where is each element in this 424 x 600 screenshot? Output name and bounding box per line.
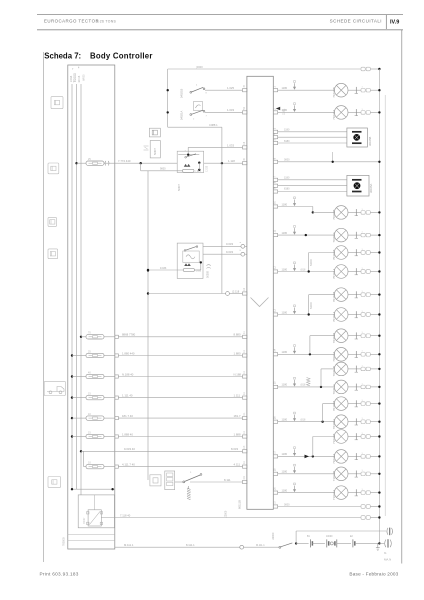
wire F3 to body controller [118,376,242,378]
svg-text:(0300: (0300 [196,65,203,69]
relay K2 output wire 1 [203,245,241,247]
wire F4 bus to fuse [72,397,86,399]
svg-text:1.880: 1.880 [234,351,241,355]
lamp 70300A ground tick [348,234,361,236]
svg-text:W005: W005 [83,74,86,81]
svg-text:0.033: 0.033 [226,242,233,246]
branch rise lamp row 252 [308,253,310,272]
lamp 70300A wire to ground bus [370,234,379,236]
svg-text:1180: 1180 [282,86,288,90]
wire F1 fuse to box edge [104,336,115,338]
svg-text:70300A: 70300A [332,232,336,242]
long vertical link wire [147,171,149,480]
svg-text:70000: 70000 [73,73,77,83]
junction drop from row 163 [140,162,142,164]
body controller right pin 17 [273,455,277,458]
svg-text:1.118: 1.118 [228,159,235,163]
lamp 71030B ground tick [348,89,361,91]
lamp 71030A connector pair [361,111,365,115]
svg-text:1.033: 1.033 [227,143,234,147]
relay 50306 feed branch wire [187,147,189,154]
junction after master switch [295,542,297,544]
battery element 1 [310,539,312,547]
svg-text:71033A: 71033A [332,490,336,500]
branch rise to lamp row 368 [320,369,322,387]
lamp 71033B connector pair [361,472,365,476]
unit 70000 bottom partition line 1 [68,534,115,536]
svg-text:(818: (818 [301,419,306,422]
lamp 71032B ground tick [348,436,361,438]
wire F3 fuse to box edge [104,376,115,378]
pin on unit 70000 edge for F6 [115,435,119,438]
body controller left pin S2 [243,111,247,114]
svg-text:1180: 1180 [282,231,288,235]
junction long vertical at row 270 [147,269,149,271]
lamp 71033B ground tick [348,473,361,475]
lamp 70300B wire to ground bus [370,211,379,213]
relay 50306 internal fuse pill [183,169,195,172]
wire F2 to body controller [118,355,242,357]
body controller left pin F5 [243,417,247,420]
lamp 70300B ground junction [378,211,380,213]
bottom row wire from unit 70000 [115,546,240,548]
svg-text:(818: (818 [301,384,306,387]
body controller right pin 8 [273,184,277,187]
lamp 71030B [334,83,348,97]
body controller left pin F7 [243,465,247,468]
lamp 70305B wire to ground bus [370,403,379,405]
svg-text:8180: 8180 [284,140,290,143]
lamp 70305B ground junction [378,402,380,404]
wire row 163 fuse to connector [104,162,115,164]
ground riser wire [295,531,297,543]
wire row 163 to relay contact [115,162,177,164]
icon box MOTO side marks [144,145,149,147]
svg-text:70305B: 70305B [332,401,336,411]
body controller left pin F3 [243,375,247,378]
svg-text:70302B: 70302B [332,292,336,302]
secondary right bus line [384,95,386,516]
svg-text:1180: 1180 [282,310,288,314]
icon box MOTO with label [150,141,160,158]
margin pictogram icon2 [48,163,59,174]
lamp 70305B [334,397,348,411]
svg-text:U2000: U2000 [272,532,275,540]
body controller left pin row 293 [243,292,247,295]
svg-text:7.118 40: 7.118 40 [120,513,131,517]
row 293 wire to body controller [148,293,226,295]
relay K2 branch riser [200,262,202,270]
row 506 from body controller bottom [273,505,277,508]
icon nested box bottom [150,475,161,486]
lamp 71030B ground junction [378,89,380,91]
lamp 70303B wire to ground bus [370,335,379,337]
battery master switch 52000 [279,546,281,548]
lamp 70301B ground junction [378,251,380,253]
svg-text:1.888 40: 1.888 40 [122,432,133,436]
svg-text:70303B: 70303B [332,333,336,343]
lamp 71033B wire to ground bus [370,473,379,475]
svg-text:70304A: 70304A [332,384,336,394]
row 8.033 junction on bus 3 [80,450,82,452]
lamp 70304B connector pair [361,367,365,371]
svg-text:1.111 40: 1.111 40 [122,393,133,397]
svg-text:9.033 40: 9.033 40 [124,447,135,451]
lamp 71033A ground tick [348,492,361,494]
branch rise to lamp row 403 [322,404,324,422]
lamp 70303A ground junction [378,353,380,355]
svg-text:50307: 50307 [154,147,157,155]
svg-text:(.025: (.025 [196,171,202,173]
relay K2 coil bottom junction [200,261,202,263]
wire row 163 bus to fuse [77,162,87,164]
wire F4 to body controller [118,397,242,399]
svg-text:(.033: (.033 [196,270,202,272]
lamp 70304A connector pair [361,385,365,389]
lamp 71032B ground junction [378,435,380,437]
bottom row wire to switch [244,546,279,548]
svg-text:Base - Febbraio 2003: Base - Febbraio 2003 [349,571,398,576]
lamp 70305A connector pair [361,420,365,424]
svg-text:70302A: 70302A [332,312,336,322]
lamp 71030B wire to ground bus [370,89,379,91]
svg-text:70000B: 70000B [63,537,66,546]
svg-text:1180: 1180 [282,418,288,422]
row 506 connector pair [361,505,365,509]
lamp 70300B ground tick [348,211,361,213]
svg-text:30105B: 30105B [368,137,372,146]
lamp 70304B wire to ground bus [370,368,379,370]
wire F5 to body controller [118,417,242,419]
wire row 8.033 [81,450,243,452]
pin on unit 70000 edge for F3 [115,375,119,378]
margin pictogram icon1 [51,97,63,109]
lamp 70301A wire to ground bus [370,271,379,273]
right margin line [401,30,403,564]
wire block to switch [175,481,183,483]
relay 50306 junction lower [198,169,200,171]
fuse F2 [86,353,104,357]
right bus ground line [378,69,380,543]
header separator bar [385,15,387,29]
lamp 71033B [334,467,348,481]
switch S1 junction [167,89,169,91]
svg-text:70305A: 70305A [332,419,336,429]
svg-text:50307: 50307 [178,183,181,191]
bus bar 1 [71,84,73,489]
svg-text:1.880 440: 1.880 440 [122,351,135,355]
lamp 70301A ground tick [348,271,361,273]
lamp 71032A connector pair [361,455,365,459]
svg-text:54021A: 54021A [179,111,183,120]
svg-text:SCHEDE CIRCUITALI: SCHEDE CIRCUITALI [330,19,382,24]
header top rule [37,14,403,16]
lamp 70302A ground tick [348,314,361,316]
svg-text:4.111: 4.111 [234,462,241,466]
pin on unit 70000 edge for F7 [115,465,119,468]
lamp 70303A ground tick [348,353,361,355]
svg-text:0000: 0000 [284,159,290,162]
svg-text:1180: 1180 [282,202,288,206]
branch rise to lamp row 436 [312,437,314,457]
svg-text:(818: (818 [301,268,306,271]
body controller right pin 12 [273,270,277,273]
relay 50306 internal wire [178,154,199,156]
relay K2 output wire 2 [203,253,241,255]
connector block bottom [165,471,175,490]
body controller left pin F6 [243,435,247,438]
lamp 70303A connector pair [361,353,365,357]
fuse row F1 junction on bus [80,336,82,338]
inline connector pair on top wire [361,67,365,71]
svg-text:EUROCARGO TECTOR: EUROCARGO TECTOR [44,19,99,24]
icon box 3D [149,128,160,137]
junction row 163 with drop from switch loop [221,162,223,164]
ground link wire to frame [296,530,386,532]
body controller left pin F1 [243,335,247,338]
fuse row F5 junction on bus [71,417,73,419]
inline connector circle K2-2 [241,252,245,256]
fuse row 163 [86,161,104,165]
body controller left pin 8.033 [243,450,247,453]
body controller right pin 10 [273,205,277,208]
pin on unit 70000 edge for F1 [115,335,119,338]
header bottom rule [37,29,403,31]
lamp 71032B connector pair [361,435,365,439]
lamp 70304B ground junction [378,368,380,370]
lamp 70305A ground tick [348,421,361,423]
junction long vertical at relay branch [147,269,149,271]
wire F5 fuse to box edge [104,417,115,419]
battery wire to ground bus [355,542,380,544]
lamp 71032B wire to ground bus [370,436,379,438]
svg-text:1180: 1180 [282,383,288,387]
body controller unit 60111 box [247,76,273,509]
svg-text:30105A: 30105A [369,184,373,193]
svg-text:9000: 9000 [160,168,166,171]
margin pictogram icon4 [48,249,58,259]
relay 50306 internal junction [187,154,189,156]
svg-text:70304B: 70304B [332,366,336,376]
wire S1 to body controller [205,89,243,91]
svg-text:N.188 40: N.188 40 [122,372,134,376]
lamp 70301A connector pair [361,270,365,274]
body controller right pin 6 [273,160,277,163]
lamp 70304B ground tick [348,368,361,370]
battery element 2 left [326,539,328,547]
body controller right pin 18 [273,472,277,475]
body controller right pin 11 [273,234,277,237]
lamp 70304B [334,362,348,376]
body controller right pin 1 [273,89,277,92]
svg-text:(2.118: (2.118 [232,289,240,293]
svg-text:10000: 10000 [326,536,333,538]
small earth mark under bus dot [377,543,379,547]
body controller right pin 14 [273,353,277,356]
row 517 long wire from unit 70000 relay [101,517,361,519]
inner box of unit 70000 [78,495,114,528]
pin on unit 70000 edge for F2 [115,354,119,357]
wire S2 to body controller [205,111,243,113]
wire F1 bus to fuse [81,336,86,338]
battery link wire 2 [337,542,351,544]
svg-text:MA.N: MA.N [384,558,391,562]
lamp 70301A [334,265,348,279]
bus bridge junction right [111,488,113,490]
wire F5 bus to fuse [72,417,86,419]
lamp 71030A ground junction [378,111,380,113]
unit 70000 body computer box [68,65,115,549]
bus bridge wire at bottom of unit 70000 [72,488,115,490]
svg-text:1180: 1180 [282,470,288,474]
svg-text:50308: 50308 [207,270,210,278]
wire F6 to body controller [118,436,242,438]
relay 50306 contact blade [185,157,187,159]
svg-text:1180: 1180 [282,267,288,271]
battery link wire 1 [312,542,325,544]
body controller right pin 2 [273,111,277,114]
svg-text:71032B: 71032B [332,434,336,444]
lamp 70302B wire to ground bus [370,294,379,296]
unit 70000 bottom partition line 2 [68,540,115,542]
body controller right pin 20 [273,491,277,494]
relay 50306 coil marks [184,164,188,167]
lamp 70302A ground junction [378,313,380,315]
svg-text:71033B: 71033B [332,471,336,481]
svg-text:1180: 1180 [282,452,288,456]
lamp 70300A [334,228,348,242]
lamp 70302A connector pair [361,313,365,317]
feed drop to lamp row 212 [312,207,314,213]
lamp 70300A connector pair [361,233,365,237]
bus bar 2 [76,84,78,489]
relay K2 internal fuse pill [183,269,194,272]
fuse F5 [86,416,104,420]
fuse row F4 junction on bus [71,396,73,398]
svg-text:7.772 440: 7.772 440 [118,159,131,163]
svg-text:8868 7780: 8868 7780 [122,333,136,337]
fuse F3 [86,374,104,378]
svg-text:1180: 1180 [282,488,288,492]
switch S2 sensor box [194,102,203,111]
wire F2 fuse to box edge [104,355,115,357]
lamp 70303B ground junction [378,335,380,337]
lamp 70305A wire to ground bus [370,421,379,423]
svg-text:9.033: 9.033 [160,267,167,270]
switch loop bottom wire [168,126,222,128]
svg-text:50300: 50300 [310,259,313,266]
horizontal link wire 9000 [141,170,183,172]
switch S1 blade [190,91,192,93]
fuse row F2 junction on bus [71,354,73,356]
lamp 71030B connector pair [361,88,365,92]
lamp 71032A wire to ground bus [370,455,379,457]
wire F3 bus to fuse [72,376,86,378]
wire F7 to body controller [118,466,242,468]
svg-text:C088 1: C088 1 [209,123,218,127]
marker lamp box 30105B [347,128,368,147]
svg-text:1180: 1180 [284,129,290,132]
lamp 71030A ground tick [348,111,361,113]
fuse F1 [86,335,104,339]
battery element 2 center circle [330,542,333,545]
inline connector on row 163 [104,161,107,166]
battery feed wire [296,542,309,544]
lamp 70302B ground junction [378,293,380,295]
bus bar 3 [80,84,82,495]
svg-text:M.111.1: M.111.1 [124,543,134,547]
svg-text:50300: 50300 [310,302,313,309]
svg-text:Body Controller: Body Controller [90,51,153,60]
chassis ground symbol at bus bottom [379,542,384,544]
relay K2 contact blade [184,250,186,252]
relay K2 coil marks [184,263,188,266]
fuse row F6 junction on bus [71,435,73,437]
bus bridge junction left [71,488,73,490]
battery element 2 right [334,541,336,545]
svg-text:70007: 70007 [84,517,86,524]
lamp 71033A wire to ground bus [370,492,379,494]
lamp 70302A wire to ground bus [370,314,379,316]
switch S2 blade [190,114,192,116]
row 517 wire to bus [370,517,379,519]
relay K2 branch wire [148,269,183,271]
fuse F7 [86,464,104,468]
svg-text:C014: C014 [69,75,73,82]
svg-text:8.111: 8.111 [224,478,231,482]
svg-text:N.188: N.188 [234,372,242,376]
svg-text:1180: 1180 [284,177,290,180]
lamp 70302B connector pair [361,293,365,297]
lamp 70302B [334,288,348,302]
svg-text:9.033: 9.033 [226,250,233,254]
lamp 71032A ground junction [378,455,380,457]
wire F4 fuse to box edge [104,397,115,399]
branch rise lamp row 294 [308,295,310,315]
lamp 70302A [334,308,348,322]
relay contact box 50306 [177,151,204,172]
lamp 70300B [334,206,348,220]
svg-text:J2000: J2000 [224,510,227,517]
lamp 71032B [334,430,348,444]
svg-text:IV.9: IV.9 [390,19,399,25]
switch loop drop wire [221,127,223,293]
wire F1 to body controller [118,336,242,338]
inline connector circle K2-1 [241,244,245,248]
wire row 163 relay to body controller [204,162,243,164]
wire F2 bus to fuse [72,355,86,357]
lamp 70303A [334,348,348,362]
svg-text:71030A: 71030A [332,110,336,120]
switch S2 junction [167,111,169,113]
frame ground symbol right [387,528,388,535]
svg-text:1.025: 1.025 [227,86,234,90]
relay 50306 junction upper [198,162,200,164]
svg-text:1180: 1180 [282,350,288,354]
body controller left pin S3 [243,480,247,483]
lamp 71033B ground junction [378,473,380,475]
bottom switch hatch coil [187,488,191,500]
wire F6 bus to fuse [72,436,86,438]
svg-text:30 15: 30 15 [77,75,81,82]
margin pictogram icon3 [48,217,57,226]
svg-text:70303A: 70303A [332,351,336,361]
svg-text:1.111: 1.111 [234,393,241,397]
row 293 inline connector circle [226,292,230,296]
body controller right pin 13 [273,313,277,316]
branch rise to lamp row 335 [309,336,311,355]
lamp 70304A [334,380,348,394]
